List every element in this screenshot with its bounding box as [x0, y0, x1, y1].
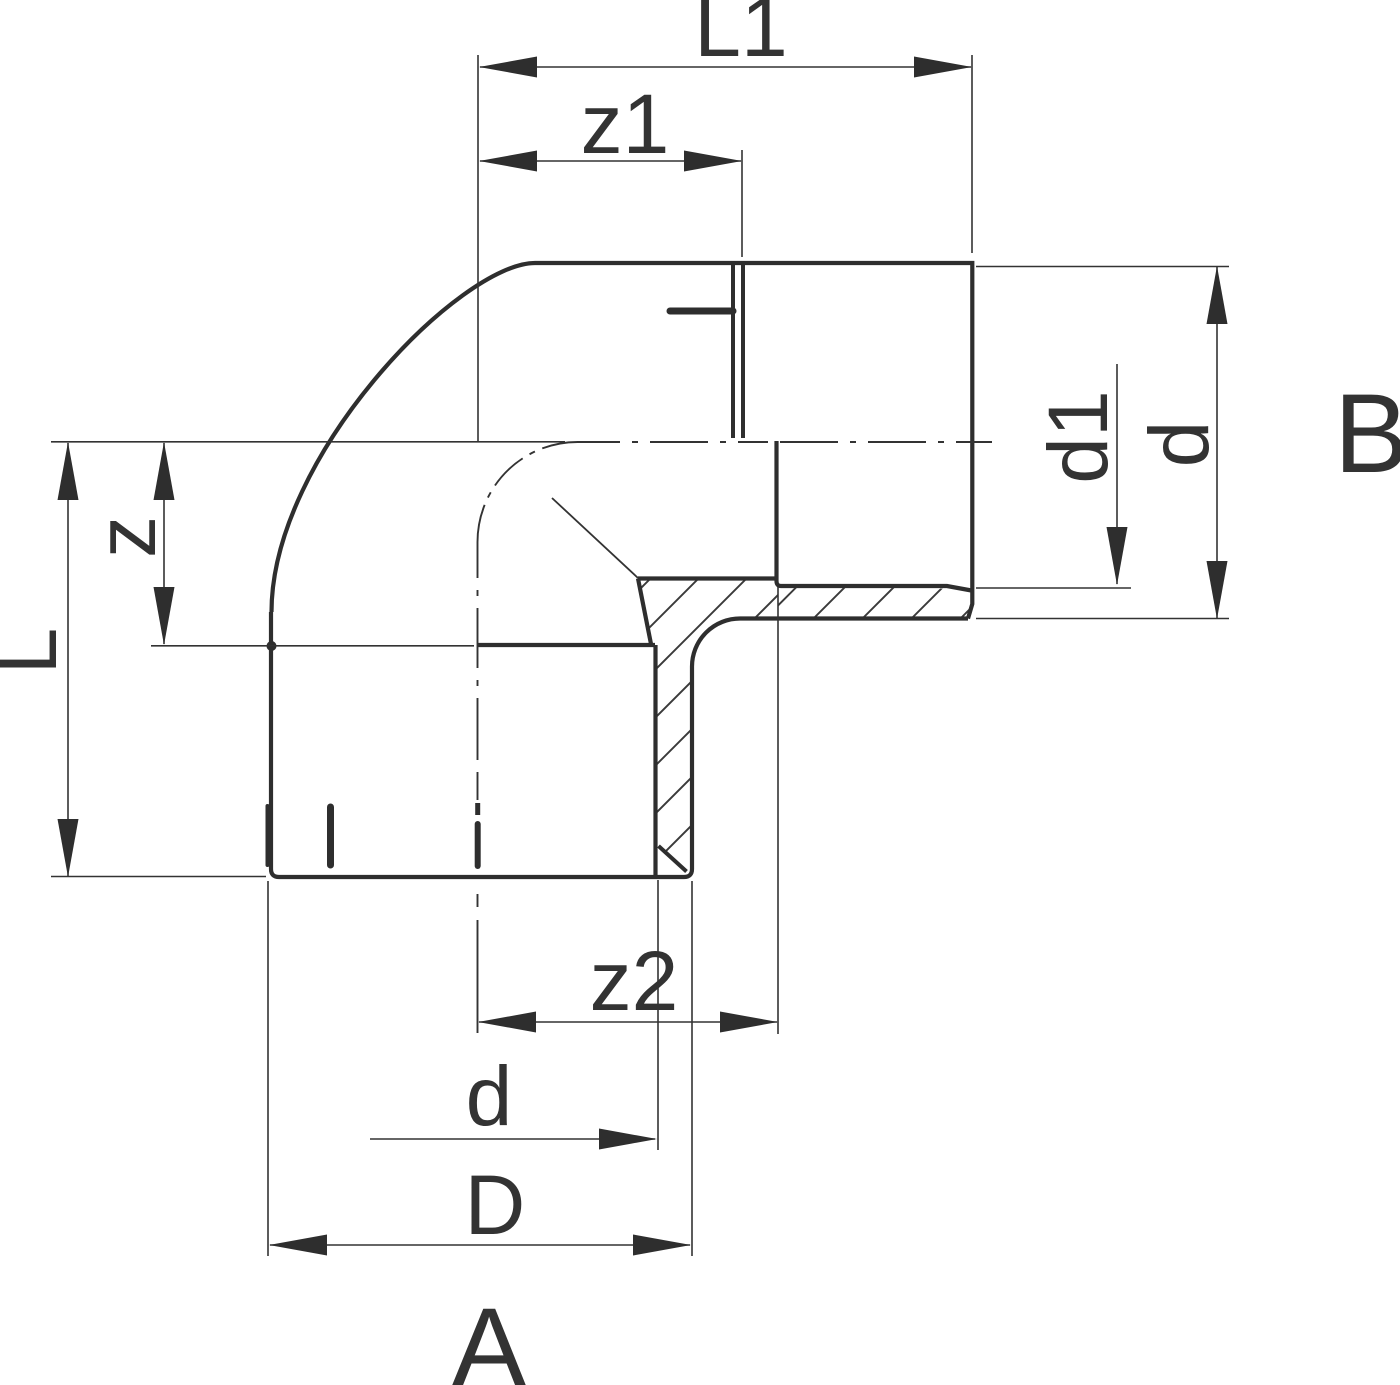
wire: insertion tick on top socket: [670, 308, 733, 315]
wire: centerline vertical (dash-dot): [477, 542, 479, 1033]
dimension D (bottom): [270, 1244, 690, 1246]
body outline: bottom of horizontal socket with outer fillet: [692, 619, 968, 667]
wire: extension line right of D: [691, 881, 693, 1256]
body outline: bottom face of vertical socket: [271, 869, 684, 877]
wire: extension line of d1 (right): [976, 587, 1131, 589]
wire: hatching right of socket end face: [744, 560, 1020, 640]
svg-text:z: z: [79, 516, 173, 558]
wire: centerline horizontal (dash-dot): [578, 441, 993, 443]
node: tangent point dot on left wall: [267, 641, 277, 651]
dimension L (left): [67, 443, 69, 876]
svg-text:d: d: [466, 1049, 513, 1143]
wire: extension line top of d (right): [976, 266, 1229, 268]
wire: bead line at left socket mouth: [266, 806, 270, 865]
wire: extension line top for z and L: [51, 441, 565, 443]
svg-text:z2: z2: [590, 934, 679, 1028]
wire: extension line bottom of L: [51, 876, 266, 878]
dimension d (bottom): [370, 1138, 655, 1140]
svg-text:D: D: [465, 1158, 526, 1252]
body outline: shoulder of vertical socket: [477, 643, 655, 647]
dimension d (right): [1216, 267, 1218, 618]
svg-text:A: A: [452, 1285, 527, 1385]
svg-text:d: d: [1132, 421, 1226, 468]
svg-text:z1: z1: [581, 77, 670, 171]
wire: extension line right of L1: [971, 55, 973, 253]
wire: extension line right of z1: [741, 150, 743, 257]
body outline: taper edge of vertical socket bore: [638, 579, 651, 645]
wire: thick dash on centerline at bottom socket mouth: [475, 803, 480, 815]
body outline: top edge, right face and lower chamfer of B socket: [535, 263, 972, 619]
body outline: vertical socket bore wall and mouth chamfer: [653, 645, 657, 876]
wire: centerline bend arc (dash-dot): [478, 442, 578, 542]
svg-text:d1: d1: [1031, 390, 1125, 483]
wire: extension line left of L1 z1 (over centerline): [477, 55, 479, 442]
wire: socket depth witness double line (top socket): [731, 263, 735, 438]
wire: hatching of section walls: [329, 560, 1005, 900]
wire: extension line bottom of z (shoulder level): [151, 645, 474, 647]
dimension L1: [480, 66, 971, 68]
wire: extension line bottom of d (right): [976, 618, 1229, 620]
body outline: socket end face of B socket: [777, 441, 782, 586]
wire: insertion tick on bottom socket: [327, 807, 334, 865]
svg-text:L1: L1: [694, 0, 787, 74]
wire: extension line of d (bottom): [657, 880, 659, 1150]
dimension z1: [480, 160, 741, 162]
body outline: inner bore sole of d1 (section): [638, 576, 775, 580]
wire: extension line right of z2: [777, 587, 779, 1034]
body outline: outer bend curve: [272, 263, 536, 612]
svg-text:B: B: [1334, 371, 1400, 496]
dimension z (left): [163, 443, 165, 644]
body outline: left outer wall: [269, 612, 273, 869]
svg-text:L: L: [0, 628, 74, 675]
dimension d1 (right): [1116, 364, 1118, 584]
body outline: socket bore sole of B socket: [781, 586, 972, 591]
body outline: right outer wall of vertical socket: [684, 667, 692, 878]
wire: extension line left of D: [267, 881, 269, 1256]
dimension z2 (bottom): [479, 1021, 777, 1023]
wire: mouth chamfer of vertical socket bore: [659, 846, 687, 872]
wire: section break line (thin diagonal): [552, 498, 638, 578]
